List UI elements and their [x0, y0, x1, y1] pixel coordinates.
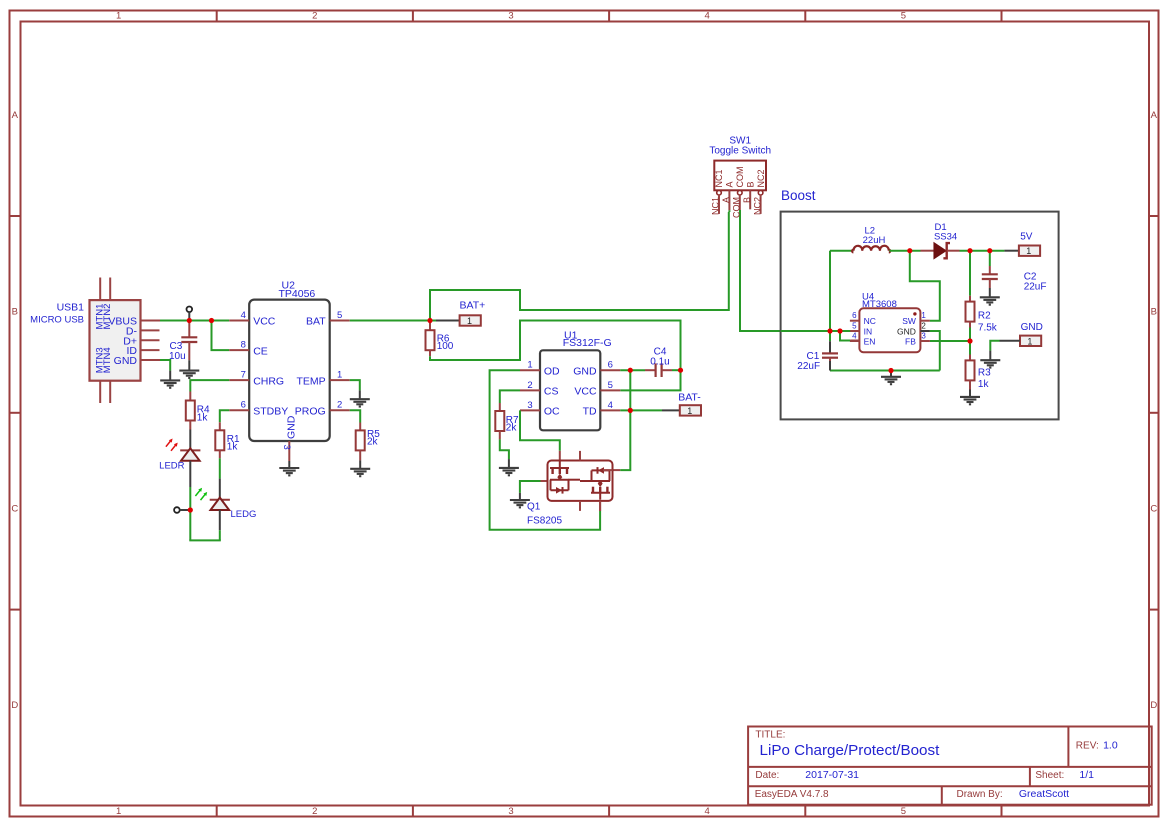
svg-text:2017-07-31: 2017-07-31 — [805, 769, 859, 781]
svg-text:VCC: VCC — [253, 316, 276, 328]
svg-text:1: 1 — [116, 11, 121, 22]
svg-text:NC: NC — [864, 316, 876, 326]
svg-text:3: 3 — [508, 806, 513, 817]
svg-text:BAT+: BAT+ — [460, 299, 486, 311]
svg-text:OC: OC — [544, 406, 560, 418]
svg-text:B: B — [745, 181, 755, 187]
svg-text:5: 5 — [901, 11, 906, 22]
svg-text:4: 4 — [705, 806, 710, 817]
svg-text:TD: TD — [583, 406, 597, 418]
svg-text:5V: 5V — [1020, 232, 1033, 243]
svg-text:2k: 2k — [367, 437, 379, 448]
svg-text:Sheet:: Sheet: — [1035, 770, 1064, 781]
svg-text:1: 1 — [467, 316, 472, 326]
svg-text:22uH: 22uH — [863, 235, 886, 246]
svg-text:3: 3 — [527, 400, 532, 411]
svg-text:8: 8 — [241, 339, 246, 350]
svg-text:NC2: NC2 — [756, 169, 766, 187]
svg-text:7.5k: 7.5k — [978, 322, 998, 333]
svg-text:D: D — [1150, 700, 1157, 711]
svg-text:MTN4: MTN4 — [102, 347, 113, 373]
svg-text:A: A — [725, 181, 735, 187]
svg-text:LiPo Charge/Protect/Boost: LiPo Charge/Protect/Boost — [760, 742, 941, 759]
svg-text:4: 4 — [241, 310, 246, 321]
svg-text:TITLE:: TITLE: — [755, 730, 785, 741]
svg-text:CHRG: CHRG — [253, 375, 284, 387]
svg-text:GND: GND — [573, 365, 597, 377]
svg-text:5: 5 — [901, 806, 906, 817]
svg-text:5: 5 — [608, 380, 613, 391]
svg-text:Boost: Boost — [781, 188, 816, 203]
svg-text:5: 5 — [337, 310, 342, 321]
svg-text:5: 5 — [852, 322, 857, 331]
svg-text:FB: FB — [905, 337, 916, 347]
svg-text:TP4056: TP4056 — [279, 288, 316, 300]
svg-text:1k: 1k — [197, 412, 209, 423]
svg-text:6: 6 — [241, 400, 246, 411]
svg-text:EasyEDA V4.7.8: EasyEDA V4.7.8 — [755, 789, 829, 800]
svg-text:1: 1 — [1026, 246, 1031, 256]
svg-text:Q1: Q1 — [527, 502, 541, 513]
svg-text:EN: EN — [864, 337, 876, 347]
svg-text:BAT-: BAT- — [678, 392, 701, 404]
svg-text:GND: GND — [285, 415, 297, 439]
svg-text:4: 4 — [852, 332, 857, 341]
svg-text:D: D — [11, 700, 18, 711]
svg-text:Drawn By:: Drawn By: — [957, 789, 1003, 800]
svg-text:OD: OD — [544, 365, 560, 377]
svg-text:GND: GND — [114, 355, 138, 367]
svg-text:NC1: NC1 — [711, 197, 721, 215]
svg-text:1.0: 1.0 — [1103, 740, 1118, 752]
svg-text:1k: 1k — [978, 379, 990, 390]
svg-text:CE: CE — [253, 345, 268, 357]
svg-text:NC1: NC1 — [714, 169, 724, 187]
svg-text:7: 7 — [241, 369, 246, 380]
svg-text:22uF: 22uF — [1024, 281, 1047, 292]
svg-text:1: 1 — [687, 406, 692, 416]
svg-text:3: 3 — [281, 445, 292, 450]
svg-text:2: 2 — [312, 11, 317, 22]
svg-text:USB1: USB1 — [57, 301, 85, 313]
svg-text:SW: SW — [902, 316, 916, 326]
svg-text:FS312F-G: FS312F-G — [563, 337, 612, 349]
svg-text:1: 1 — [527, 360, 532, 371]
svg-text:BAT: BAT — [306, 316, 326, 328]
svg-text:3: 3 — [921, 332, 926, 341]
svg-text:2: 2 — [921, 322, 926, 331]
svg-text:VCC: VCC — [574, 386, 597, 398]
svg-text:4: 4 — [608, 400, 613, 411]
svg-text:2: 2 — [337, 400, 342, 411]
svg-text:Date:: Date: — [755, 770, 779, 781]
svg-text:B: B — [12, 307, 18, 318]
svg-text:2: 2 — [527, 380, 532, 391]
svg-text:3: 3 — [508, 11, 513, 22]
svg-text:1: 1 — [921, 311, 926, 320]
svg-text:A: A — [1151, 110, 1158, 121]
svg-text:1: 1 — [116, 806, 121, 817]
svg-text:2k: 2k — [506, 423, 518, 434]
svg-text:MT3608: MT3608 — [862, 299, 897, 310]
svg-text:A: A — [12, 110, 19, 121]
svg-text:FS8205: FS8205 — [527, 516, 562, 527]
svg-text:LEDG: LEDG — [231, 509, 257, 520]
svg-text:1: 1 — [337, 369, 342, 380]
svg-text:1k: 1k — [227, 442, 239, 453]
svg-text:CS: CS — [544, 386, 559, 398]
svg-text:6: 6 — [852, 311, 857, 320]
svg-text:10u: 10u — [169, 351, 186, 362]
svg-text:22uF: 22uF — [797, 361, 820, 372]
svg-text:0.1u: 0.1u — [650, 356, 669, 367]
svg-text:4: 4 — [705, 11, 710, 22]
svg-text:R3: R3 — [978, 368, 991, 379]
svg-text:REV:: REV: — [1076, 741, 1099, 752]
svg-text:TEMP: TEMP — [297, 375, 326, 387]
svg-text:GND: GND — [897, 326, 916, 336]
svg-text:NC2: NC2 — [752, 197, 762, 215]
svg-text:PROG: PROG — [295, 405, 326, 417]
svg-text:6: 6 — [608, 360, 613, 371]
svg-text:100: 100 — [437, 341, 454, 352]
svg-text:MTN2: MTN2 — [102, 304, 113, 330]
svg-text:2: 2 — [312, 806, 317, 817]
svg-text:1: 1 — [1027, 336, 1032, 346]
svg-text:SS34: SS34 — [934, 231, 957, 242]
svg-text:1/1: 1/1 — [1079, 769, 1094, 781]
svg-text:STDBY: STDBY — [253, 405, 288, 417]
svg-text:COM: COM — [732, 197, 742, 218]
svg-text:GND: GND — [1021, 322, 1043, 333]
svg-text:R2: R2 — [978, 311, 991, 322]
svg-text:LEDR: LEDR — [159, 460, 184, 471]
svg-text:A: A — [721, 197, 731, 203]
svg-text:C: C — [11, 503, 18, 514]
svg-text:C: C — [1150, 503, 1157, 514]
svg-text:IN: IN — [864, 326, 873, 336]
svg-text:MICRO USB: MICRO USB — [30, 314, 84, 325]
svg-text:COM: COM — [735, 167, 745, 188]
svg-text:Toggle Switch: Toggle Switch — [709, 146, 771, 157]
svg-text:GreatScott: GreatScott — [1019, 788, 1069, 800]
svg-text:B: B — [742, 197, 752, 203]
svg-text:B: B — [1151, 307, 1157, 318]
